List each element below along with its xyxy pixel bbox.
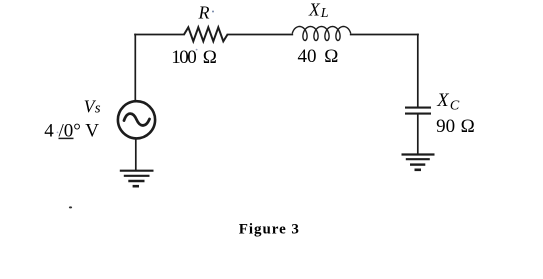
wire top-left horizontal [135, 34, 184, 36]
wire source to ground [135, 139, 137, 170]
svg-text:Figure 3: Figure 3 [239, 222, 300, 238]
svg-text:Ω: Ω [324, 46, 338, 67]
ground left [120, 171, 154, 187]
stray dot near 4 [57, 132, 59, 134]
svg-text:100: 100 [171, 47, 196, 68]
svg-text:C: C [450, 99, 460, 114]
capacitor XC plates [405, 108, 431, 114]
ac source U1 circle [118, 101, 155, 138]
svg-text:Ω: Ω [203, 47, 217, 68]
svg-text:s: s [95, 101, 101, 117]
ac source sine wave [124, 114, 150, 126]
inductor XL [292, 27, 350, 41]
wire right vertical lower [417, 114, 419, 154]
wire left vertical [134, 35, 136, 102]
wire top-right horizontal [351, 34, 418, 36]
ground right [402, 155, 435, 170]
svg-text:40: 40 [298, 46, 317, 67]
svg-text:R: R [198, 2, 210, 22]
stray dot lower-left [69, 206, 72, 208]
angle underline [59, 137, 74, 139]
resistor R [184, 27, 228, 41]
svg-text:X: X [436, 91, 449, 111]
stray dot near R [212, 11, 214, 13]
svg-text:90: 90 [436, 116, 455, 137]
svg-text:X: X [308, 0, 321, 20]
stray dot above 100 [196, 49, 198, 51]
svg-text:Ω: Ω [461, 116, 475, 137]
svg-text:L: L [320, 6, 329, 21]
wire right vertical upper [417, 35, 419, 108]
wire middle horizontal [228, 34, 293, 36]
